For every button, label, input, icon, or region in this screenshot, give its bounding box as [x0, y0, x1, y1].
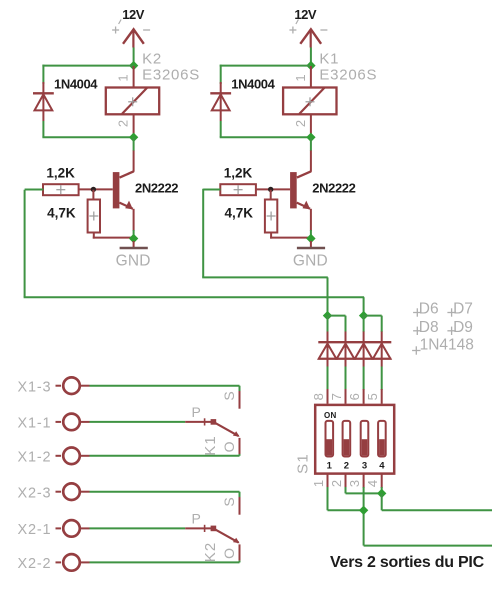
wire emitter to ground node: [133, 230, 135, 239]
diode 1N4004 (right) flyback: [210, 82, 231, 121]
svg-text:D6: D6: [419, 301, 439, 318]
svg-text:GND: GND: [293, 253, 328, 270]
contact K2 pivot: [211, 526, 217, 532]
ground GND (left): [116, 241, 151, 270]
wire flyback loop left upper: [220, 65, 222, 84]
svg-text:8: 8: [311, 392, 326, 400]
wire flyback loop left lower: [42, 121, 44, 137]
wire left section to diode D8/D9 column (net to S1 pins 6,5): [24, 190, 365, 316]
svg-text:4: 4: [365, 479, 380, 487]
svg-text:4,7K: 4,7K: [47, 206, 76, 221]
svg-text:Vers 2 sorties du PIC: Vers 2 sorties du PIC: [330, 554, 485, 571]
S1 pin 1 (bottom): [311, 474, 328, 488]
svg-text:K2: K2: [142, 51, 162, 68]
contact K2 arm: [213, 528, 239, 543]
wire output 1 to PIC: [382, 509, 492, 511]
resistor 4,7K (left): [88, 190, 134, 239]
wire flyback loop bottom: [220, 136, 311, 138]
junction dot base/R divider: [268, 187, 273, 192]
wire right section to diode D6/D7 column (net to S1 pins 8,7): [202, 189, 328, 316]
wire to diode D8 anode-top: [363, 316, 365, 332]
wire flyback loop top: [42, 65, 133, 67]
wire 12V to node: [310, 48, 312, 66]
svg-text:D8: D8: [419, 319, 439, 336]
svg-text:6: 6: [347, 392, 362, 400]
supply +12V (left): [112, 7, 150, 48]
svg-text:S1: S1: [294, 453, 311, 474]
wire flyback loop bottom: [42, 136, 133, 138]
svg-text:1N4004: 1N4004: [54, 77, 98, 92]
relay K1 name labels: [319, 51, 377, 84]
DIP switch S1 body: [315, 405, 394, 474]
svg-text:D9: D9: [453, 319, 473, 336]
svg-text:E3206S: E3206S: [319, 67, 377, 84]
S1 pin 3 (bottom): [347, 474, 364, 488]
connector pad X2-3: [18, 483, 90, 501]
diode 1N4004 (left) flyback: [33, 82, 54, 121]
svg-text:O: O: [221, 547, 237, 559]
svg-text:D7: D7: [453, 301, 473, 318]
svg-text:P: P: [192, 404, 201, 420]
wire to diode D7 anode-top: [345, 316, 347, 332]
svg-text:7: 7: [329, 392, 344, 400]
svg-text:X2-1: X2-1: [18, 522, 52, 538]
connector pad X1-2: [18, 448, 90, 466]
svg-text:O: O: [221, 440, 237, 452]
svg-text:K2: K2: [202, 542, 219, 563]
wire from X2-1: [90, 527, 186, 529]
wire diode D9 to S1 pin 5: [381, 367, 383, 391]
svg-text:K1: K1: [319, 51, 339, 68]
wire from X1-1: [90, 421, 186, 423]
resistor 1,2K (left): [43, 184, 79, 195]
junction node D: [377, 489, 386, 498]
svg-text:X1-2: X1-2: [18, 450, 52, 466]
wire S1 pin2 down: [345, 487, 347, 493]
diode D6 1N4148: [319, 332, 337, 367]
relay coil K1: [283, 66, 336, 135]
svg-text:2: 2: [116, 119, 131, 127]
junction node at ground: [129, 234, 138, 243]
svg-text:2: 2: [293, 119, 308, 127]
contact K1 throw S pin: [239, 386, 241, 409]
svg-text:3: 3: [362, 460, 367, 471]
svg-text:P: P: [192, 510, 201, 526]
svg-text:K1: K1: [202, 435, 219, 456]
connector pad X2-1: [18, 520, 90, 538]
svg-text:2: 2: [329, 479, 344, 487]
junction node at ground: [306, 234, 315, 243]
junction node A (pin 8 column): [323, 311, 332, 320]
contact K2 pole P pin: [185, 525, 213, 532]
junction node C: [359, 506, 368, 515]
svg-text:2: 2: [344, 460, 349, 471]
S1 pin 4 (bottom): [365, 474, 382, 488]
contact K1 pole P pin: [185, 418, 213, 425]
wire flyback loop top: [220, 65, 311, 67]
relay K2 name labels: [142, 51, 200, 84]
wire flyback loop left upper: [42, 65, 44, 84]
wire output 2 to PIC: [364, 545, 492, 547]
svg-text:1,2K: 1,2K: [224, 166, 253, 181]
svg-text:2N2222: 2N2222: [135, 181, 178, 196]
svg-text:3: 3: [347, 479, 362, 487]
junction node top of K2: [129, 61, 138, 70]
wire S1 pin3 down through node C: [363, 487, 365, 546]
wire S1 pin1 down: [327, 487, 329, 510]
junction node relay/collector: [129, 133, 138, 142]
svg-text:2N2222: 2N2222: [312, 181, 355, 196]
diode D9 1N4148: [373, 332, 391, 367]
label D9: [447, 319, 473, 336]
wire node to collector: [310, 137, 312, 151]
svg-text:4,7K: 4,7K: [224, 206, 253, 221]
transistor 2N2222 (right): [256, 151, 311, 232]
ground GND (right): [293, 241, 328, 270]
contact K1 throw O pin: [239, 438, 241, 456]
S1 pin 8: [311, 389, 328, 404]
svg-text:4: 4: [379, 460, 385, 471]
contact K2 throw S pin: [239, 492, 241, 515]
label D8: [413, 319, 439, 336]
svg-text:E3206S: E3206S: [142, 67, 200, 84]
wire node B to D9 column: [364, 315, 382, 317]
svg-text:X2-3: X2-3: [18, 486, 52, 502]
svg-text:12V: 12V: [122, 7, 144, 22]
contact K1 arm: [213, 422, 239, 437]
wire diode D8 to S1 pin 6: [363, 367, 365, 391]
svg-text:1N4004: 1N4004: [231, 77, 275, 92]
diode D7 1N4148: [337, 332, 355, 367]
wire to diode D9 anode-top: [381, 316, 383, 332]
wire from X1-2: [90, 455, 240, 457]
junction node relay/collector: [306, 133, 315, 142]
wire from X2-2: [90, 561, 240, 563]
svg-text:X1-3: X1-3: [18, 380, 52, 396]
svg-text:GND: GND: [116, 253, 151, 270]
junction node B (pin 6 column): [359, 311, 368, 320]
connector pad X2-2: [18, 554, 90, 572]
relay coil K2: [106, 66, 159, 135]
wire diode D6 to S1 pin 8: [327, 367, 329, 391]
svg-text:1: 1: [293, 73, 308, 81]
diode array anode base rail: [318, 358, 391, 360]
svg-text:S: S: [221, 496, 237, 506]
connector pad X1-1: [18, 414, 90, 432]
wire flyback loop left lower: [220, 121, 222, 137]
supply +12V (right): [289, 7, 327, 48]
svg-text:1: 1: [327, 460, 333, 471]
wire node D down: [381, 493, 383, 510]
wire S1 pin1 to node C: [328, 509, 364, 511]
transistor 2N2222 (left): [79, 151, 134, 232]
svg-text:ON: ON: [324, 411, 337, 420]
svg-text:X2-2: X2-2: [18, 556, 52, 572]
diode array cathode rail: [318, 341, 391, 343]
contact K1 pivot: [211, 419, 217, 425]
label D7: [447, 301, 473, 318]
svg-text:1: 1: [116, 73, 131, 81]
wire node A to D7 column: [328, 315, 346, 317]
svg-text:S: S: [221, 390, 237, 400]
diode D8 1N4148: [355, 332, 373, 367]
wire node to collector: [133, 137, 135, 151]
svg-text:1,2K: 1,2K: [46, 166, 75, 181]
wire emitter to ground node: [310, 230, 312, 239]
resistor 4,7K (right): [265, 190, 311, 239]
resistor 1,2K (right): [220, 184, 256, 195]
label 1N4148: [412, 337, 474, 355]
label D6: [413, 301, 439, 318]
junction dot base/R divider: [91, 187, 96, 192]
connector pad X1-3: [18, 377, 90, 395]
contact K2 throw O pin: [239, 544, 241, 562]
S1 pin 5: [365, 389, 382, 404]
S1 pin 7: [329, 389, 346, 404]
wire from X1-3: [90, 385, 240, 387]
svg-text:X1-1: X1-1: [18, 416, 52, 432]
S1 pin 2 (bottom): [329, 474, 346, 488]
S1 pin 6: [347, 389, 364, 404]
wire to diode D6 anode-top: [327, 316, 329, 332]
wire from X2-3: [90, 491, 240, 493]
wire diode D7 to S1 pin 7: [345, 367, 347, 391]
svg-text:1N4148: 1N4148: [420, 337, 474, 354]
junction node top of K1: [306, 61, 315, 70]
svg-text:5: 5: [365, 392, 380, 400]
wire S1 pin2 to node D: [346, 492, 382, 494]
wire S1 pin4 down to node D: [381, 487, 383, 493]
wire 12V to node: [133, 48, 135, 66]
svg-text:1: 1: [311, 479, 326, 487]
